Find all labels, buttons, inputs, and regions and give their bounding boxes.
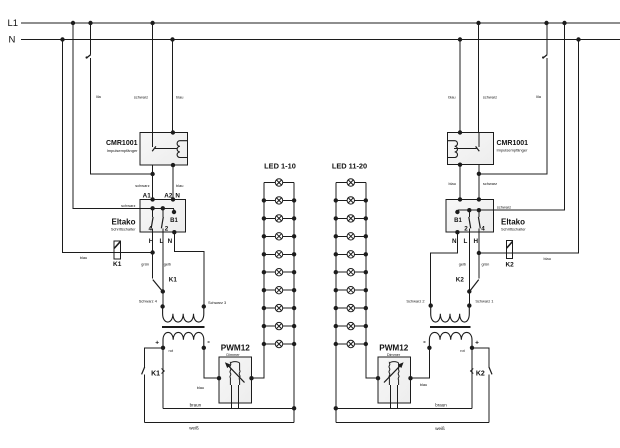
svg-text:blau: blau bbox=[80, 255, 87, 260]
wire schwarz L1 to Eltako right bus bbox=[458, 23, 565, 212]
svg-text:blau: blau bbox=[544, 256, 551, 261]
wire PWM12 left output to LED1-10 bbox=[252, 344, 264, 378]
switch S1 pivot bbox=[86, 56, 88, 58]
svg-text:schwarz: schwarz bbox=[497, 205, 511, 210]
wire lila upper right bbox=[546, 23, 548, 54]
svg-text:PWM12: PWM12 bbox=[379, 343, 409, 352]
wire blau A2 bbox=[172, 165, 174, 199]
dimmer stem right b bbox=[396, 385, 398, 408]
node LED1-10 left rail row 4 bbox=[262, 234, 266, 238]
svg-text:Dimmer: Dimmer bbox=[226, 353, 240, 357]
svg-text:N: N bbox=[9, 35, 16, 46]
node LED11-20 left rail row 7 bbox=[334, 288, 338, 292]
node braun LED rail junction right bbox=[334, 406, 338, 410]
lamp LED11-20 LED 1 bbox=[347, 179, 354, 186]
svg-text:2: 2 bbox=[165, 226, 169, 233]
svg-text:blau: blau bbox=[176, 183, 183, 188]
wire braun right bbox=[336, 407, 472, 409]
wire schwarz A1 right bbox=[478, 165, 480, 200]
transformer T2 core bbox=[430, 326, 470, 328]
contact 4 lower right bbox=[478, 228, 480, 232]
pin A2 Eltako right bbox=[458, 197, 462, 201]
wire LED11-20 rung 4 bbox=[336, 235, 366, 237]
contact 2 lower right bbox=[468, 228, 470, 232]
svg-text:+: + bbox=[475, 340, 479, 347]
node N junction x578.5 bbox=[576, 37, 580, 41]
svg-text:-: - bbox=[207, 337, 210, 346]
switch S2 pivot bbox=[542, 56, 544, 58]
contact K1 arrow bbox=[162, 369, 165, 374]
lamp LED11-20 LED 7 bbox=[347, 287, 354, 294]
node LED11-20 left rail row 9 bbox=[334, 324, 338, 328]
svg-text:grün: grün bbox=[482, 261, 490, 266]
node transformer T2 primary right bbox=[467, 303, 471, 307]
coil U1 relay coil bbox=[177, 141, 187, 158]
svg-text:Schrittschalter: Schrittschalter bbox=[111, 227, 136, 232]
pin PWM12 left output bbox=[249, 376, 253, 380]
wire lila to A1 node right bbox=[479, 58, 547, 174]
pin B1 Eltako right bbox=[455, 210, 459, 214]
wire LED1-10 rung 4 bbox=[264, 235, 294, 237]
wire L1 rail bbox=[21, 22, 620, 24]
impulse receiver U1 CMR1001 body bbox=[140, 133, 187, 166]
node LED1-10 left rail row 9 bbox=[262, 324, 266, 328]
svg-text:schwarz: schwarz bbox=[134, 94, 148, 99]
wire PWM12 right output to LED11-20 bbox=[366, 344, 378, 378]
node LED11-20 left rail row 5 bbox=[334, 252, 338, 256]
node transformer T1 primary right bbox=[202, 304, 206, 308]
node braun LED rail junction left bbox=[292, 406, 296, 410]
node L1 junction x73 bbox=[71, 21, 75, 25]
pin U1 bottom blau bbox=[171, 163, 175, 167]
dimmer stem left b bbox=[237, 385, 239, 408]
node LED1-10 left rail row 2 bbox=[262, 198, 266, 202]
node K1 blade junction bbox=[161, 289, 165, 293]
wire blau N to K2 coil bbox=[479, 40, 578, 254]
svg-text:blau: blau bbox=[448, 94, 455, 99]
svg-text:K1: K1 bbox=[113, 261, 122, 268]
lamp LED1-10 LED 7 bbox=[275, 287, 282, 294]
node bus contact2 bbox=[161, 206, 165, 210]
node LED11-20 left rail row 4 bbox=[334, 234, 338, 238]
lamp LED11-20 LED 5 bbox=[347, 251, 354, 258]
svg-text:B1: B1 bbox=[454, 218, 462, 224]
svg-text:+: + bbox=[155, 340, 159, 347]
svg-text:weiß: weiß bbox=[435, 426, 445, 431]
wire LED11-20 right rail bbox=[365, 183, 367, 345]
svg-text:LED 11-20: LED 11-20 bbox=[332, 161, 367, 170]
lamp LED1-10 LED 6 bbox=[275, 269, 282, 276]
node LED1-10 left rail row 7 bbox=[262, 288, 266, 292]
wire K1 contact to weiss bbox=[143, 375, 145, 423]
contact 4 upper right bbox=[478, 210, 480, 217]
contact 4 blade right bbox=[478, 217, 480, 228]
contact 2 upper bbox=[162, 208, 164, 217]
wire braun left bbox=[163, 407, 294, 409]
contact 4 upper bbox=[152, 208, 154, 217]
node LED11-20 left rail row 2 bbox=[334, 198, 338, 202]
transformer T1 core bbox=[162, 326, 204, 328]
svg-text:blau: blau bbox=[197, 385, 204, 390]
pin A2 Eltako bbox=[171, 197, 175, 201]
node LED1-10 right rail row 4 bbox=[292, 234, 296, 238]
svg-text:Schwarz 2: Schwarz 2 bbox=[406, 298, 424, 303]
wire LED11-20 rung 2 bbox=[336, 199, 366, 201]
switch S2 blade bbox=[543, 55, 548, 59]
wire LED11-20 rung 7 bbox=[336, 289, 366, 291]
lamp LED11-20 LED 4 bbox=[347, 233, 354, 240]
lamp LED1-10 LED 8 bbox=[275, 304, 282, 311]
lamp LED11-20 LED 3 bbox=[347, 215, 354, 222]
wire H gruen right bbox=[478, 232, 480, 253]
wire schwarz L1 to CMR1001 right bbox=[478, 23, 480, 133]
node LED11-20 right rail row 10 bbox=[364, 342, 368, 346]
relay coil K2 bbox=[506, 241, 512, 259]
switch U1 internal blade bbox=[152, 146, 156, 151]
dimmer stem right a bbox=[390, 385, 392, 408]
transformer T2 secondary winding bbox=[429, 332, 472, 347]
dimmer arrow PWM12 right bbox=[384, 366, 400, 383]
coil U2 relay coil bbox=[447, 141, 457, 158]
wire blau A2 right bbox=[459, 165, 461, 200]
svg-text:grün: grün bbox=[141, 261, 149, 266]
wire LED11-20 rung 5 bbox=[336, 253, 366, 255]
wire schwarz A1 bbox=[152, 165, 154, 199]
svg-text:Eltako: Eltako bbox=[111, 218, 135, 227]
node bus contact2 right bbox=[467, 208, 471, 212]
svg-text:blau: blau bbox=[449, 181, 456, 186]
lamp LED1-10 LED 3 bbox=[275, 215, 282, 222]
wire weiss left bbox=[144, 421, 294, 423]
wire H lower bbox=[152, 253, 154, 279]
node LED11-20 right rail row 7 bbox=[364, 288, 368, 292]
pin PWM12 right output bbox=[376, 376, 380, 380]
wire minus to PWM12 right pin bbox=[411, 348, 430, 378]
node T1 secondary plus bbox=[161, 346, 165, 350]
contact K1 blade bbox=[153, 280, 163, 292]
wire schwarz L1 to CMR1001 bbox=[152, 23, 154, 133]
wire LED1-10 rung 3 bbox=[264, 217, 294, 219]
wire lila upper bbox=[90, 23, 92, 54]
dimmer PWM12 right body bbox=[378, 357, 411, 403]
contact 4 blade bbox=[151, 217, 153, 228]
wire LED1-10 left rail bbox=[263, 183, 265, 345]
svg-text:schwarz: schwarz bbox=[483, 94, 497, 99]
dimmer element PWM12 left bbox=[230, 362, 240, 385]
svg-text:lila: lila bbox=[536, 94, 542, 99]
lamp LED1-10 LED 2 bbox=[275, 197, 282, 204]
svg-text:K1: K1 bbox=[169, 276, 178, 283]
svg-text:PWM12: PWM12 bbox=[221, 343, 251, 352]
dimmer element PWM12 right bbox=[389, 362, 399, 385]
node LED1-10 right rail row 10 bbox=[292, 342, 296, 346]
node LED1-10 left rail row 5 bbox=[262, 252, 266, 256]
svg-text:N: N bbox=[168, 238, 173, 245]
transformer T1 secondary winding bbox=[163, 332, 204, 347]
node LED11-20 left rail row 8 bbox=[334, 306, 338, 310]
svg-text:gelb: gelb bbox=[164, 261, 171, 266]
wire LED11-20 rung 3 bbox=[336, 217, 366, 219]
svg-text:L1: L1 bbox=[8, 18, 19, 29]
pin A1 Eltako bbox=[150, 197, 154, 201]
node LED11-20 left rail row 10 bbox=[334, 342, 338, 346]
wire lila to A1 node bbox=[91, 58, 153, 174]
node LED11-20 right rail row 5 bbox=[364, 252, 368, 256]
svg-text:Dimmer: Dimmer bbox=[387, 353, 401, 357]
relay coil K1 bbox=[114, 241, 120, 259]
svg-text:LED 1-10: LED 1-10 bbox=[264, 161, 296, 170]
wire rot to K1 contact bbox=[144, 348, 163, 367]
node LED1-10 left rail row 6 bbox=[262, 270, 266, 274]
dimmer arrow PWM12 left bbox=[228, 366, 244, 383]
contact K1 secondary blade bbox=[142, 367, 145, 375]
contact 2 blade right bbox=[469, 217, 471, 228]
wire K2 contact to weiss bbox=[488, 375, 490, 423]
lamp LED1-10 LED 5 bbox=[275, 251, 282, 258]
lamp LED1-10 LED 9 bbox=[275, 322, 282, 329]
svg-text:schwarz: schwarz bbox=[121, 203, 135, 208]
svg-text:Eltako: Eltako bbox=[501, 218, 525, 227]
pin N Eltako bottom right bbox=[455, 230, 459, 234]
svg-text:gelb: gelb bbox=[459, 261, 466, 266]
wire U2 internal to coil bbox=[454, 147, 477, 149]
wire LED11-20 left rail down bbox=[335, 344, 337, 423]
lamp LED11-20 LED 8 bbox=[347, 304, 354, 311]
svg-text:K2: K2 bbox=[505, 262, 514, 269]
node T2 secondary plus bbox=[470, 346, 474, 350]
wire U1 internal to coil bbox=[155, 147, 178, 149]
node H blau junction right bbox=[477, 251, 481, 255]
svg-text:Impulsempfänger: Impulsempfänger bbox=[107, 148, 139, 153]
contact K2 arrow bbox=[471, 369, 474, 374]
svg-text:B1: B1 bbox=[170, 218, 178, 224]
node LED1-10 right rail row 9 bbox=[292, 324, 296, 328]
wire LED1-10 right rail down bbox=[293, 344, 295, 422]
node LED1-10 right rail row 5 bbox=[292, 252, 296, 256]
node L1 junction x546.5 bbox=[544, 21, 548, 25]
node N junction x460 bbox=[458, 37, 462, 41]
wire LED1-10 rung 7 bbox=[264, 289, 294, 291]
svg-text:lila: lila bbox=[96, 94, 102, 99]
svg-text:schwarz: schwarz bbox=[135, 183, 149, 188]
wire L gelb bbox=[162, 232, 164, 306]
switch U2 internal blade bbox=[476, 146, 480, 151]
node T1 secondary minus bbox=[202, 346, 206, 350]
node H blau junction bbox=[150, 250, 154, 254]
svg-text:K1: K1 bbox=[151, 371, 160, 378]
lamp LED11-20 LED 6 bbox=[347, 269, 354, 276]
impulse switch Eltako left body bbox=[140, 199, 186, 232]
pin U2 bottom blau bbox=[458, 163, 462, 167]
lamp LED11-20 LED 9 bbox=[347, 322, 354, 329]
wire LED1-10 rung 2 bbox=[264, 199, 294, 201]
lamp LED1-10 LED 1 bbox=[275, 179, 282, 186]
pin U1 top blau bbox=[171, 130, 175, 134]
node LED1-10 right rail row 8 bbox=[292, 306, 296, 310]
svg-text:weiß: weiß bbox=[189, 426, 199, 431]
node LED1-10 right rail row 7 bbox=[292, 288, 296, 292]
node transformer T2 primary left bbox=[429, 303, 433, 307]
node LED1-10 left rail row 8 bbox=[262, 306, 266, 310]
node A1 lila junction right bbox=[477, 172, 481, 176]
wire LED11-20 rung 6 bbox=[336, 271, 366, 273]
svg-text:Impulsempfänger: Impulsempfänger bbox=[497, 147, 529, 152]
node T2 secondary minus bbox=[427, 346, 431, 350]
pin B1 Eltako bbox=[172, 210, 176, 214]
wire N Eltako to T2 primary left bbox=[431, 232, 458, 305]
svg-text:L: L bbox=[463, 238, 467, 245]
svg-text:2: 2 bbox=[464, 226, 468, 233]
node L1 junction x90.5 bbox=[88, 21, 92, 25]
svg-text:N: N bbox=[452, 238, 457, 245]
pin N Eltako bottom bbox=[172, 230, 176, 234]
svg-text:H: H bbox=[474, 238, 479, 245]
contact K2 secondary blade bbox=[489, 367, 492, 375]
svg-text:Schwarz 4: Schwarz 4 bbox=[139, 298, 158, 303]
wire LED11-20 rung 8 bbox=[336, 307, 366, 309]
contact 2 lower bbox=[162, 228, 164, 232]
node LED11-20 right rail row 4 bbox=[364, 234, 368, 238]
wire H lower right bbox=[478, 253, 480, 278]
node N junction x62.5 bbox=[60, 37, 64, 41]
pin PWM12 right input bbox=[408, 376, 412, 380]
node LED11-20 left rail row 3 bbox=[334, 216, 338, 220]
contact 4 lower bbox=[152, 228, 154, 232]
wire plus T1 down to braun bbox=[162, 348, 164, 409]
svg-text:A1: A1 bbox=[143, 193, 152, 200]
impulse switch Eltako right body bbox=[446, 199, 494, 232]
node L1 junction x478.5 bbox=[476, 21, 480, 25]
contact K2 blade bbox=[470, 280, 479, 292]
svg-text:blau: blau bbox=[176, 94, 183, 99]
switch U2 internal wire bbox=[478, 133, 480, 147]
lamp LED11-20 LED 2 bbox=[347, 197, 354, 204]
node LED1-10 right rail row 2 bbox=[292, 198, 296, 202]
wire LED11-20 rung 9 bbox=[336, 325, 366, 327]
dimmer PWM12 left body bbox=[219, 357, 252, 403]
svg-text:braun: braun bbox=[435, 403, 447, 408]
contact 2 upper right bbox=[468, 210, 470, 217]
lamp LED1-10 LED 10 bbox=[275, 340, 282, 347]
wire schwarz L1 to Eltako B1 bus bbox=[73, 23, 174, 212]
pin A1 Eltako right bbox=[477, 197, 481, 201]
svg-text:Schrittschalter: Schrittschalter bbox=[501, 227, 526, 232]
svg-text:CMR1001: CMR1001 bbox=[497, 140, 529, 147]
contact 2 blade bbox=[161, 217, 163, 228]
node L1 junction x152.6 bbox=[150, 21, 154, 25]
svg-text:4: 4 bbox=[481, 226, 485, 233]
wire LED1-10 rung 1 bbox=[264, 182, 294, 184]
svg-text:CMR1001: CMR1001 bbox=[106, 140, 138, 147]
node LED11-20 left rail row 6 bbox=[334, 270, 338, 274]
wire minus to PWM12 left pin bbox=[204, 348, 219, 378]
svg-text:Schwarz 1: Schwarz 1 bbox=[475, 298, 493, 303]
wire weiss right bbox=[336, 422, 489, 424]
node L1 junction x564.5 bbox=[562, 21, 566, 25]
node K2 blade junction bbox=[467, 289, 471, 293]
svg-text:Schwarz 3: Schwarz 3 bbox=[208, 300, 226, 305]
wire rot to K2 contact bbox=[472, 348, 489, 367]
transformer T2 primary winding bbox=[431, 306, 470, 322]
wire blau N to CMR1001 right bbox=[459, 40, 461, 133]
wire LED11-20 rung 1 bbox=[336, 182, 366, 184]
wire LED1-10 rung 9 bbox=[264, 325, 294, 327]
wire N Eltako to T1 primary right bbox=[174, 232, 204, 306]
svg-text:K2: K2 bbox=[456, 276, 465, 283]
node LED11-20 right rail row 2 bbox=[364, 198, 368, 202]
wire LED11-20 left rail bbox=[335, 183, 337, 345]
node A1 lila junction bbox=[150, 172, 154, 176]
lamp LED1-10 LED 4 bbox=[275, 233, 282, 240]
node LED11-20 right rail row 6 bbox=[364, 270, 368, 274]
wire N rail bbox=[21, 39, 620, 41]
wire H gruen bbox=[152, 232, 154, 252]
node LED1-10 left rail row 10 bbox=[262, 342, 266, 346]
node LED1-10 right rail row 3 bbox=[292, 216, 296, 220]
node bus contact4 bbox=[150, 206, 154, 210]
svg-text:4: 4 bbox=[148, 226, 152, 233]
lamp LED11-20 LED 10 bbox=[347, 340, 354, 347]
node LED11-20 right rail row 8 bbox=[364, 306, 368, 310]
switch S1 blade bbox=[86, 55, 91, 59]
wire L gelb right bbox=[468, 232, 470, 305]
node LED11-20 right rail row 9 bbox=[364, 324, 368, 328]
svg-text:-: - bbox=[423, 337, 426, 346]
wire LED11-20 rung 10 bbox=[336, 343, 366, 345]
svg-text:blau: blau bbox=[420, 382, 427, 387]
dimmer stem left a bbox=[231, 385, 233, 408]
node LED11-20 right rail row 3 bbox=[364, 216, 368, 220]
pin U2 top blau bbox=[458, 130, 462, 134]
node LED1-10 left rail row 3 bbox=[262, 216, 266, 220]
svg-text:K2: K2 bbox=[476, 371, 485, 378]
node LED1-10 right rail row 6 bbox=[292, 270, 296, 274]
wire LED1-10 rung 8 bbox=[264, 307, 294, 309]
transformer T1 primary winding bbox=[163, 307, 204, 323]
wire LED1-10 rung 10 bbox=[264, 343, 294, 345]
node N junction x172.5 bbox=[170, 37, 174, 41]
switch U1 internal wire bbox=[152, 133, 154, 147]
wire LED1-10 right rail bbox=[293, 183, 295, 345]
svg-text:N: N bbox=[175, 193, 180, 200]
wire plus T2 down to braun bbox=[471, 348, 473, 409]
wire LED1-10 rung 6 bbox=[264, 271, 294, 273]
impulse receiver U2 CMR1001 body bbox=[447, 133, 493, 165]
node bus contact4 right bbox=[477, 208, 481, 212]
node transformer T1 primary left bbox=[160, 304, 164, 308]
svg-text:schwarz: schwarz bbox=[483, 181, 497, 186]
wire blau N to K1 coil bbox=[63, 40, 154, 253]
svg-text:braun: braun bbox=[190, 403, 202, 408]
wire blau N to CMR1001 bbox=[172, 40, 174, 133]
pin PWM12 left input bbox=[217, 376, 221, 380]
wire LED1-10 rung 5 bbox=[264, 253, 294, 255]
